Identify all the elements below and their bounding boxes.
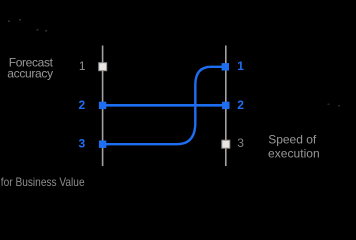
wire curve 3 to 1 bbox=[104, 67, 223, 144]
svg-text:3: 3 bbox=[79, 137, 86, 151]
right axis bbox=[225, 46, 227, 167]
svg-text:for Business Value: for Business Value bbox=[1, 175, 85, 189]
marker right 2 blue square bbox=[222, 102, 229, 109]
marker left 2 blue square bbox=[99, 102, 106, 109]
ghost speck group top-left bbox=[8, 19, 47, 32]
svg-text:1: 1 bbox=[237, 59, 244, 73]
svg-text:2: 2 bbox=[79, 98, 86, 112]
svg-text:accuracy: accuracy bbox=[7, 66, 53, 80]
svg-text:Speed of: Speed of bbox=[268, 133, 317, 147]
svg-text:2: 2 bbox=[237, 98, 244, 112]
wire line 2 to 2 bbox=[104, 104, 224, 107]
marker left 1 white square bbox=[99, 63, 107, 71]
marker right 3 white square bbox=[222, 140, 230, 148]
svg-text:1: 1 bbox=[79, 59, 86, 73]
left axis bbox=[102, 46, 104, 167]
ghost speck group right-middle bbox=[328, 104, 341, 107]
marker right 1 blue square bbox=[222, 63, 229, 70]
svg-text:execution: execution bbox=[268, 146, 320, 160]
svg-text:3: 3 bbox=[237, 136, 244, 150]
marker left 3 blue square bbox=[99, 141, 106, 148]
